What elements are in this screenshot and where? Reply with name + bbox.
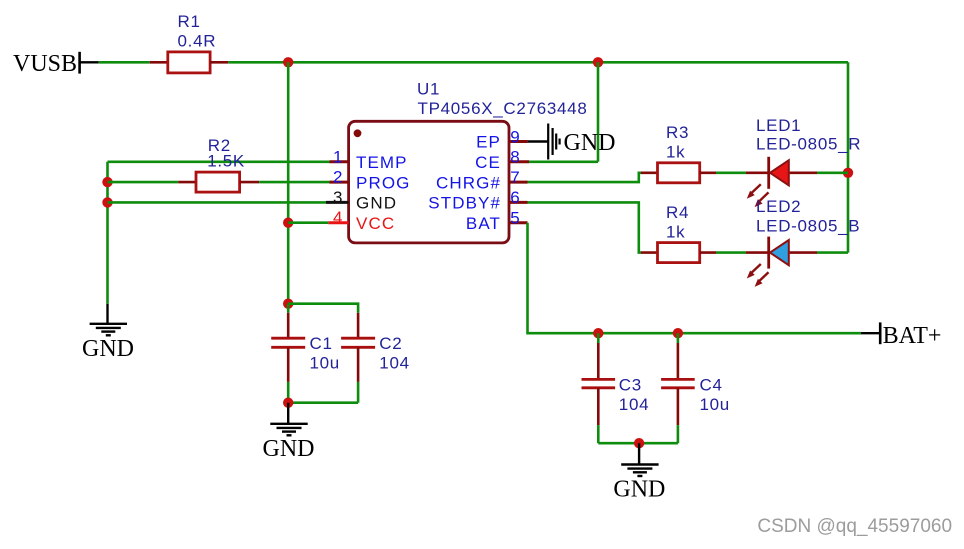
pin 3 GND: [326, 188, 397, 213]
svg-text:C4: C4: [700, 376, 723, 395]
svg-text:1k: 1k: [666, 143, 685, 162]
resistor R3: [641, 163, 716, 183]
wire CE riser: [529, 62, 598, 162]
svg-text:1k: 1k: [666, 223, 685, 242]
svg-text:C3: C3: [619, 376, 642, 395]
svg-text:BAT+: BAT+: [883, 323, 942, 349]
ground symbol at EP (rotated): [548, 124, 615, 160]
label C1 value 10u: [310, 334, 340, 372]
svg-text:4: 4: [333, 208, 344, 227]
wire R3 to LED1: [716, 172, 746, 175]
junction VUSB rail / center column: [283, 57, 293, 67]
wire PROG row left segment: [108, 181, 179, 184]
label C2 value 104: [379, 334, 409, 372]
ground symbol under C3-C4: [613, 443, 665, 502]
wire STDBY# row to R4: [528, 202, 642, 252]
capacitor C1: [271, 304, 305, 403]
wire GND pin row: [108, 201, 327, 204]
resistor R2: [178, 172, 259, 192]
svg-text:104: 104: [619, 395, 649, 414]
label C3 value 104: [619, 376, 649, 414]
junction center column / VCC row: [283, 218, 293, 228]
wire VUSB rail from R1 to right corner: [228, 61, 848, 64]
junction left rail / GND pin row: [102, 197, 112, 207]
svg-text:6: 6: [510, 188, 521, 207]
svg-text:VCC: VCC: [356, 214, 395, 233]
pin 1 TEMP: [330, 147, 408, 172]
svg-text:5: 5: [510, 209, 521, 228]
junction capacitor bottom / ground: [283, 398, 293, 408]
svg-text:LED-0805_B: LED-0805_B: [756, 217, 860, 236]
svg-text:PROG: PROG: [356, 173, 410, 192]
svg-text:TP4056X_C2763448: TP4056X_C2763448: [418, 99, 588, 118]
svg-text:GND: GND: [356, 194, 397, 213]
port VUSB: [13, 51, 80, 77]
svg-text:1.5K: 1.5K: [207, 152, 245, 171]
pin 9 EP: [476, 127, 527, 151]
svg-text:TEMP: TEMP: [356, 153, 408, 172]
svg-text:CE: CE: [475, 153, 501, 172]
svg-text:2: 2: [333, 168, 344, 187]
svg-text:STDBY#: STDBY#: [428, 194, 501, 213]
label C4 value 10u: [700, 376, 730, 414]
ground symbol left: [82, 304, 134, 362]
wire right rail down to LEDs: [847, 62, 850, 252]
LED LED2 (blue): [746, 237, 817, 287]
svg-text:BAT: BAT: [466, 214, 501, 233]
svg-text:CHRG#: CHRG#: [436, 173, 501, 192]
pin 6 STDBY#: [428, 188, 527, 212]
capacitor C4: [661, 333, 695, 443]
svg-text:LED-0805_R: LED-0805_R: [756, 135, 861, 154]
wire VUSB port to R1 (black then green): [80, 61, 150, 63]
label R1 value 0.4R: [178, 12, 217, 50]
pin 2 PROG: [330, 168, 411, 193]
port BAT+: [861, 322, 941, 349]
wire PROG row right segment: [259, 181, 329, 184]
svg-text:0.4R: 0.4R: [178, 31, 217, 50]
label R3 value 1k: [666, 123, 689, 162]
ground symbol under C1: [263, 403, 315, 462]
label U1 TP4056X_C2763448: [417, 80, 588, 118]
IC U1 body: [349, 121, 509, 243]
pin 5 BAT: [466, 209, 528, 233]
resistor R1: [150, 52, 229, 73]
pin 8 CE: [475, 148, 529, 172]
pin 7 CHRG#: [436, 168, 528, 192]
svg-text:R4: R4: [666, 203, 689, 222]
svg-text:10u: 10u: [310, 353, 340, 372]
svg-text:10u: 10u: [700, 395, 730, 414]
junction right rail / LED1: [843, 168, 853, 178]
wire cap bottom link C2-C1: [288, 401, 358, 404]
wire left rail (GND net): [106, 162, 109, 304]
wire BAT pin down and right to BAT+: [528, 223, 862, 334]
wire CHRG# row to R3: [528, 173, 642, 182]
wire LED2 to right rail: [817, 251, 848, 254]
wire cap top link C1-C2: [288, 304, 358, 313]
svg-text:7: 7: [510, 168, 521, 187]
svg-text:R3: R3: [666, 123, 689, 142]
svg-text:VUSB: VUSB: [13, 51, 77, 77]
wire TEMP row: [108, 161, 330, 164]
svg-text:R1: R1: [178, 12, 201, 31]
capacitor C3: [582, 333, 616, 443]
junction BAT rail / C3: [593, 328, 603, 338]
svg-text:EP: EP: [476, 133, 501, 152]
label R2 value 1.5K: [207, 136, 245, 171]
svg-text:GND: GND: [82, 336, 134, 362]
resistor R4: [641, 243, 716, 263]
svg-text:GND: GND: [613, 477, 665, 503]
svg-text:1: 1: [333, 147, 344, 166]
svg-text:CSDN @qq_45597060: CSDN @qq_45597060: [757, 516, 952, 537]
label LED1 LED-0805_R: [756, 116, 861, 154]
wire center column VUSB down to VCC and caps: [287, 62, 290, 303]
wire LED1 to right rail: [817, 172, 848, 175]
junction VUSB rail / CE column: [593, 57, 603, 67]
svg-text:C2: C2: [379, 334, 402, 353]
pin 4 VCC: [328, 208, 395, 233]
label LED2 LED-0805_B: [756, 197, 860, 236]
svg-text:9: 9: [510, 127, 521, 146]
wire VCC row: [288, 221, 328, 224]
svg-text:104: 104: [379, 353, 409, 372]
capacitor C2: [341, 313, 375, 403]
label R4 value 1k: [666, 203, 689, 242]
wire R4 to LED2: [716, 251, 746, 254]
wire EP to ground (black): [528, 140, 549, 142]
svg-text:U1: U1: [417, 80, 440, 99]
svg-text:C1: C1: [310, 334, 333, 353]
svg-text:GND: GND: [263, 436, 315, 462]
svg-text:LED1: LED1: [756, 116, 801, 135]
svg-text:GND: GND: [564, 130, 616, 156]
junction BAT rail / C4: [673, 328, 683, 338]
svg-text:3: 3: [333, 188, 344, 207]
junction C3-C4 bottom / ground: [634, 438, 644, 448]
LED LED1 (red): [746, 157, 817, 207]
svg-text:LED2: LED2: [756, 197, 801, 216]
junction center column / capacitor top: [283, 299, 293, 309]
junction left rail / PROG row: [102, 177, 112, 187]
wire C3-C4 bottom link: [598, 442, 678, 445]
svg-text:8: 8: [510, 148, 521, 167]
